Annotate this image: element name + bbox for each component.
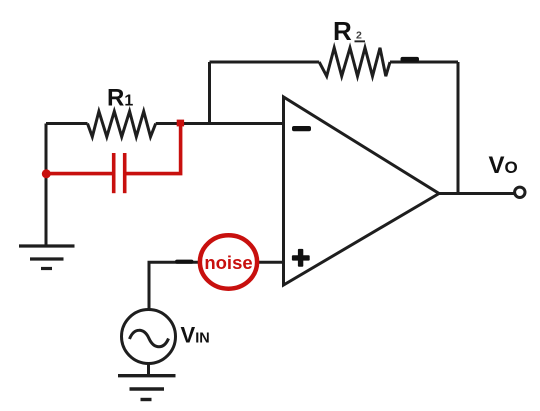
wire: VIN bottom to ground [147,364,150,376]
wire: noise source to op-amp non-inverting input [257,261,283,264]
wire: top feedback net left segment [210,61,320,64]
capacitor (red) plates [114,153,125,193]
underline mark under R2 subscript [355,40,366,42]
junction dot (red) at top of capacitor branch [177,120,184,127]
ground (left, under R1 input node) [19,246,75,269]
op-amp U1 [284,97,440,285]
wire: inverting input net, left segment from ground branch to R1 [46,122,88,125]
junction dot (red) at left node [42,169,51,178]
wire: R1 right end to op-amp inverting input [156,122,284,125]
svg-text:noise: noise [204,252,252,273]
wire: left vertical from R1 left node down to ground [45,124,48,246]
bold dash on wire left of noise source [175,260,194,264]
wire: feedback vertical (left) from top net down to inverting node [208,62,211,124]
op-amp minus (inverting) marker [292,126,311,131]
wire (red): capacitor right lead and vertical up to inverting net [127,121,181,174]
wire: feedback vertical (right) from top net down to output [457,62,460,194]
bold dash on feedback wire right of R2 [401,57,420,62]
wire: VIN up and over to noise source [149,262,200,309]
output terminal VO (open circle) [515,187,525,197]
wire: top feedback net right segment [390,61,458,64]
noise source (red circle) [200,235,257,288]
source VIN (sine) [122,310,176,364]
resistor R1 [88,111,156,137]
ground (under VIN) [118,376,176,400]
op-amp plus (non-inverting) marker [292,249,310,267]
resistor R2 [319,48,390,76]
svg-text:R: R [333,16,352,46]
sine wave inside VIN [130,330,169,346]
capacitor (red) left lead wire [46,172,112,176]
svg-text:2: 2 [356,29,362,41]
wire: op-amp output to terminal [439,192,515,195]
